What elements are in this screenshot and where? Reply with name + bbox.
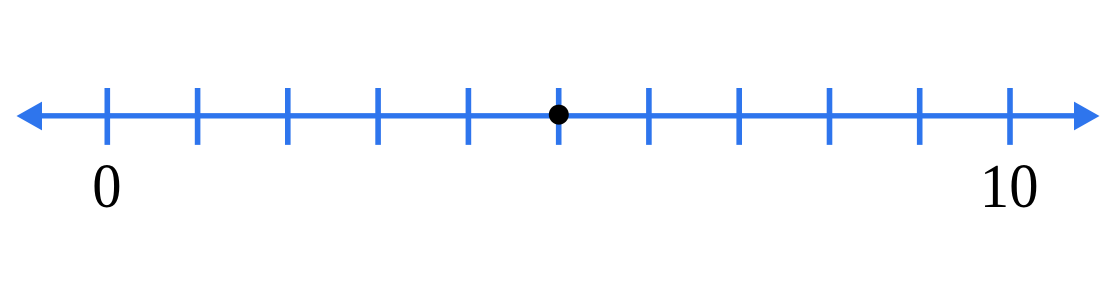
tick 6 [646, 88, 652, 145]
tick 5 [556, 88, 562, 145]
tick 7 [736, 88, 742, 145]
right arrowhead [1074, 102, 1100, 131]
tick 8 [827, 88, 833, 145]
point marker: black dot at value 5 [549, 105, 569, 125]
tick 0 [105, 88, 111, 145]
tick 2 [285, 88, 291, 145]
tick 3 [375, 88, 381, 145]
svg-text:10: 10 [980, 152, 1039, 221]
tick 9 [917, 88, 923, 145]
left arrowhead [17, 102, 43, 131]
tick 1 [195, 88, 201, 145]
wire: main horizontal axis line [26, 113, 1090, 118]
tick 4 [466, 88, 472, 145]
svg-text:0: 0 [92, 152, 121, 221]
tick 10 [1007, 88, 1013, 145]
